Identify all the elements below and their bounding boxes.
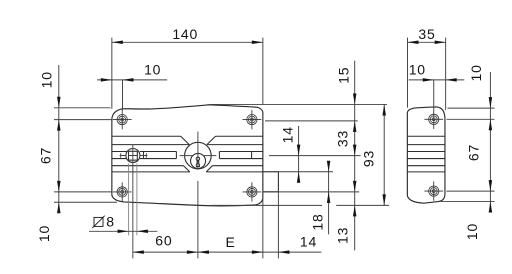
dimension 93: total case height [361,104,386,205]
dimension 13: deadbolt to bottom edge [211,181,389,244]
dimension 67: screw hole spacing (left stack) [38,147,113,192]
belt slot end caps [144,152,252,159]
dimension 15: top edge to screw hole (right stack) [211,61,388,251]
screw hole bottom-right [243,182,262,201]
cover rib 3 top line [112,165,263,167]
follower centre marks [120,153,148,158]
svg-text:10: 10 [409,62,426,78]
cylinder ring [185,142,212,169]
svg-text:10: 10 [468,64,484,81]
dimension 14: cylinder centre to deadbolt top [263,126,333,183]
svg-text:10: 10 [464,223,480,240]
cylinder face [191,153,206,168]
dimension 10: screw hole to bottom edge (left stack) [36,202,117,242]
follower vertical centreline (extension to 60 dim) [132,145,134,259]
cover rib 1 bottom line [112,144,263,146]
dimension 35: case depth (side view) [408,26,446,110]
dimension E: cylinder centre to case edge [198,234,263,254]
svg-text:140: 140 [172,26,198,42]
cover rib 3 chamfered ends [184,166,213,172]
svg-text:14: 14 [280,126,296,143]
lock case side view outline [407,107,445,203]
screw hole side view top [424,110,443,129]
svg-text:93: 93 [361,150,377,167]
cover belt top line [112,151,263,153]
deadbolt protruding 14 mm [263,172,279,192]
cylinder vertical centreline (extension to E dim) [197,132,199,259]
dimension 67: screw hole spacing (side view) [447,144,495,191]
screw hole top-left [113,110,132,129]
keyhole [196,157,200,167]
dimension 10: side screw hole to front face [409,62,465,110]
dimension 10: top edge to screw hole (left stack) [39,65,113,211]
svg-text:33: 33 [335,130,351,147]
svg-text:14: 14 [300,234,317,250]
square spindle hole 8 mm [129,151,138,160]
cover rib 3 bottom line [112,171,263,173]
svg-text:10: 10 [36,225,52,242]
svg-text:10: 10 [39,71,55,88]
cover belt bottom line [112,158,263,160]
svg-text:13: 13 [334,227,350,244]
svg-text:10: 10 [144,62,161,78]
dimension 18: deadbolt height [263,161,359,235]
svg-text:35: 35 [418,26,435,42]
dimension 14: deadbolt throw [263,193,317,259]
dimension 10: left edge to screw hole centre [97,62,167,111]
cover rib 1 top line [112,135,263,137]
lock case front view outline [112,105,263,206]
svg-text:8: 8 [106,213,115,229]
screw hole bottom-left [113,182,132,201]
dimension 140: width of case [112,26,263,109]
dimension 10: top edge to screw hole (side view right stack) [447,64,495,209]
svg-text:18: 18 [310,213,326,230]
dimension 60: follower to cylinder centre [133,233,321,254]
dimension 33: screw hole to cylinder centre [269,130,361,156]
screw hole top-right [243,110,262,129]
side view rib lines [407,136,445,172]
svg-text:60: 60 [155,233,172,249]
cylinder horizontal centre marks [180,155,217,157]
follower boss circle [126,149,140,163]
svg-text:15: 15 [336,67,352,84]
svg-text:E: E [226,234,236,250]
dimension 10: screw hole to bottom edge (side view) [441,201,495,240]
svg-text:67: 67 [38,147,54,164]
cover rib 1 chamfered ends [181,136,216,144]
dimension square 8: spindle hole [89,164,157,236]
svg-text:67: 67 [466,144,482,161]
screw hole side view bottom [424,181,443,200]
